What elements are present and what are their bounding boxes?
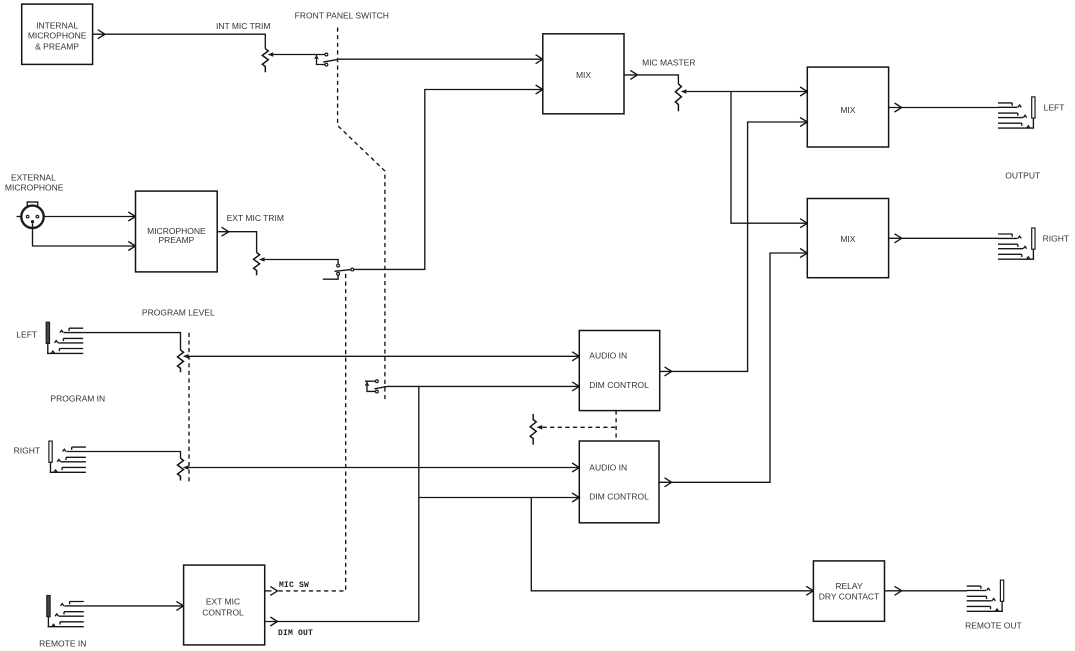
svg-text:FRONT PANEL SWITCH: FRONT PANEL SWITCH <box>295 11 389 21</box>
svg-text:PROGRAM IN: PROGRAM IN <box>50 393 105 403</box>
wire: MIX U3 output to right output jack <box>889 237 999 239</box>
wire: right jack to program level pot R5 <box>86 452 181 459</box>
potentiometer R1 INT MIC TRIM <box>262 49 268 73</box>
box: INTERNAL MICROPHONE & PREAMP <box>22 4 93 64</box>
arrow into preamp input 2 <box>128 242 135 251</box>
arrow into preamp input 1 <box>128 212 135 221</box>
arrow into MIX U3 input 1 <box>800 219 807 228</box>
svg-text:MICROPHONE: MICROPHONE <box>5 182 64 192</box>
wire: S3 to U4 dim control input <box>388 385 580 387</box>
svg-text:REMOTE OUT: REMOTE OUT <box>965 621 1022 631</box>
svg-text:RIGHT: RIGHT <box>14 445 40 455</box>
wire: XLR pin to preamp input 1 <box>44 216 136 218</box>
potentiometer R3 EXT MIC TRIM <box>254 253 260 276</box>
R6 wiper arrow <box>537 425 543 430</box>
arrow into MIX U1 input 2 <box>536 85 543 94</box>
svg-text:OUTPUT: OUTPUT <box>1005 170 1040 180</box>
R5 wiper arrow <box>183 465 189 470</box>
arrow on internal preamp output wire <box>98 30 105 39</box>
wire: R5 wiper to AUDIO IN U5 <box>189 467 580 469</box>
wire: R1 wiper to switch S1 <box>273 54 325 56</box>
svg-text:DIM CONTROL: DIM CONTROL <box>589 380 649 390</box>
svg-text:EXT MIC: EXT MIC <box>206 596 240 606</box>
wire: relay output to remote out jack <box>885 590 968 592</box>
arrow into U5 dim control <box>572 493 579 502</box>
dashed mechanical link: front panel switch to dim switch S3 <box>338 28 385 401</box>
svg-text:MIX: MIX <box>840 105 855 115</box>
svg-text:PROGRAM LEVEL: PROGRAM LEVEL <box>142 308 215 318</box>
wire: remote in jack to EXT MIC CONTROL <box>84 605 184 607</box>
arrow on U4 output <box>665 367 672 376</box>
jack J2L program in left <box>46 322 83 353</box>
wire: MIX U1 output to MIC MASTER pot <box>624 75 678 84</box>
XLR connector J1 (external microphone) <box>17 202 44 228</box>
svg-text:RIGHT: RIGHT <box>1043 234 1069 244</box>
box EXT MIC CONTROL <box>184 565 265 645</box>
dashed dim level control link <box>543 411 617 441</box>
svg-text:CONTROL: CONTROL <box>202 607 244 617</box>
svg-text:RELAY: RELAY <box>835 581 863 591</box>
wire: DIM OUT riser <box>418 386 420 621</box>
wire: MIC SW output stub <box>265 590 272 592</box>
svg-text:& PREAMP: & PREAMP <box>35 41 79 51</box>
wire: XLR pin to preamp input 2 <box>33 223 136 246</box>
wire: U4 output up to MIX U2 input 2 <box>660 122 808 371</box>
wire: DIM OUT output to riser <box>265 621 419 623</box>
R3 wiper arrow <box>259 257 265 262</box>
arrow into MIX U1 input 1 <box>536 55 543 64</box>
wire: dim control feed to U5 <box>419 497 580 499</box>
box MIX U1 (mic mix) <box>543 34 624 114</box>
switch S2 (ext mic on/off) <box>323 264 354 279</box>
arrow on preamp output <box>222 227 229 236</box>
arrow into U4 audio in <box>572 352 579 361</box>
box U5 AUDIO IN / DIM CONTROL (right) <box>579 441 659 523</box>
arrow into relay <box>806 586 813 595</box>
svg-text:EXTERNAL: EXTERNAL <box>11 173 56 183</box>
svg-text:MICROPHONE: MICROPHONE <box>28 30 87 40</box>
box MICROPHONE PREAMP <box>136 191 218 272</box>
svg-text:AUDIO IN: AUDIO IN <box>589 351 627 361</box>
arrow into MIX U2 input 1 <box>800 87 807 96</box>
svg-text:MIC SW: MIC SW <box>279 581 309 590</box>
svg-text:AUDIO IN: AUDIO IN <box>589 463 627 473</box>
wire: switch S2 output up to MIX U1 input 2 <box>354 90 543 270</box>
box RELAY DRY CONTACT <box>813 561 884 621</box>
wire: MIX U2 output to left output jack <box>889 107 999 109</box>
svg-text:EXT MIC TRIM: EXT MIC TRIM <box>227 213 284 223</box>
wire: R3 wiper to switch S2 <box>265 260 339 265</box>
wire: S1 to MIX U1 input 1 <box>338 58 542 60</box>
jack J2R program in right <box>49 441 86 472</box>
svg-text:INT MIC TRIM: INT MIC TRIM <box>216 21 270 31</box>
svg-text:DRY CONTACT: DRY CONTACT <box>819 592 879 602</box>
jack J3 LEFT output <box>998 97 1035 128</box>
arrow on U5 output <box>665 478 672 487</box>
svg-text:PREAMP: PREAMP <box>158 235 194 245</box>
potentiometer R5 PROGRAM LEVEL R <box>178 458 184 480</box>
arrow into U4 dim control <box>572 382 579 391</box>
wire: left jack to program level pot R4 <box>83 333 180 350</box>
arrow into EXT MIC CONTROL <box>176 601 183 610</box>
jack J6 remote out <box>967 580 1004 611</box>
potentiometer R4 PROGRAM LEVEL L <box>178 350 184 372</box>
potentiometer R6 dim level <box>530 414 536 445</box>
arrow on MIX U2 output <box>895 103 902 112</box>
arrow into MIX U3 input 2 <box>800 249 807 258</box>
R1 wiper arrow <box>268 52 274 57</box>
box U4 AUDIO IN / DIM CONTROL (left) <box>579 331 659 411</box>
arrow on MIX U1 output <box>630 70 637 79</box>
arrow into MIX U2 input 2 <box>800 118 807 127</box>
svg-text:MIX: MIX <box>576 70 591 80</box>
box MIX U3 (right output mix) <box>807 199 888 278</box>
arrow on MIX U3 output <box>895 234 902 243</box>
label EXTERNAL MICROPHONE <box>5 173 64 193</box>
wire: dim branch down to relay <box>531 498 813 591</box>
R2 wiper arrow <box>681 89 687 94</box>
arrow on DIM OUT output <box>270 617 277 626</box>
arrow into U5 audio in <box>572 463 579 472</box>
dashed mechanical link: MIC SW to switch S2 <box>279 273 346 591</box>
dashed gang link R4-R5 <box>188 333 190 482</box>
svg-text:LEFT: LEFT <box>1044 102 1065 112</box>
svg-text:REMOTE IN: REMOTE IN <box>39 639 86 649</box>
svg-text:INTERNAL: INTERNAL <box>36 21 78 31</box>
box MIX U2 (left output mix) <box>807 67 888 147</box>
jack J5 remote in <box>47 596 84 627</box>
arrow on relay output <box>895 586 902 595</box>
R4 wiper arrow <box>183 354 189 359</box>
wire: U5 output up to MIX U3 input 2 <box>659 253 807 482</box>
arrow on MIC SW output <box>270 586 277 595</box>
wire: R4 wiper to AUDIO IN U4 <box>189 355 580 357</box>
switch S3 (dim switch) <box>365 380 388 393</box>
wire: branch down to MIX U3 input 1 <box>731 92 807 224</box>
svg-text:DIM OUT: DIM OUT <box>278 629 313 638</box>
wire: preamp output to EXT MIC TRIM pot <box>217 232 256 253</box>
switch S1 (front panel mic switch) <box>314 53 338 66</box>
svg-text:LEFT: LEFT <box>16 329 37 339</box>
potentiometer R2 MIC MASTER <box>675 84 681 111</box>
svg-text:MIC MASTER: MIC MASTER <box>642 57 695 67</box>
jack J4 RIGHT output <box>998 228 1035 259</box>
wire: internal preamp output to INT MIC TRIM pot <box>93 34 266 49</box>
wire: R2 wiper to MIX U2 input 1 <box>686 91 807 93</box>
svg-text:DIM CONTROL: DIM CONTROL <box>589 492 649 502</box>
svg-text:MIX: MIX <box>840 234 855 244</box>
